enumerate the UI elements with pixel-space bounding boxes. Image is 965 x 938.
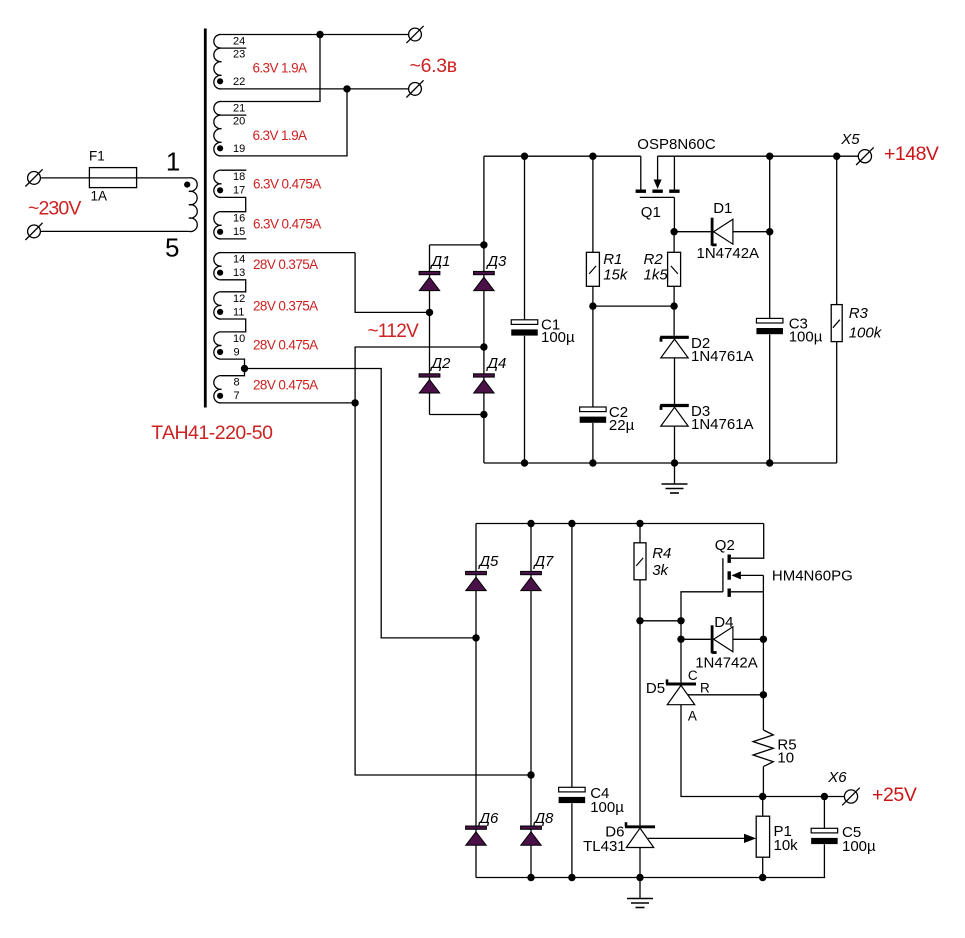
svg-text:Д7: Д7 [533, 553, 555, 570]
wire upper bridge left branch [429, 245, 431, 415]
wire pin 18 stub [222, 169, 247, 171]
svg-text:100µ: 100µ [590, 799, 624, 816]
winding 14-13 [214, 253, 222, 280]
node lower AC1 [472, 634, 479, 641]
svg-text:10: 10 [233, 333, 245, 345]
phase dot winding 13 [217, 270, 223, 276]
wire top rail right segment (+148V) [658, 155, 859, 157]
svg-text:16: 16 [233, 213, 245, 225]
node D6 anode ground [636, 874, 643, 881]
node AC1 input [426, 309, 433, 316]
zener diode D4 1N4742A (points left) [712, 625, 733, 653]
wire D5 anode to output node [681, 705, 763, 797]
shunt regulator D6 TL431 (TL431 symbol) [625, 822, 655, 847]
svg-text:D1: D1 [713, 200, 732, 217]
phase dot winding 17 [217, 187, 223, 193]
svg-text:Д1: Д1 [430, 253, 451, 270]
junction pins 9-8 tap [241, 365, 248, 372]
wire bottom rail [484, 462, 837, 464]
svg-text:R1: R1 [603, 251, 622, 268]
wire [674, 358, 676, 404]
svg-text:8: 8 [234, 377, 240, 389]
svg-text:Д2: Д2 [430, 355, 452, 372]
diode Д5 (bridge, cathode bar on top) [466, 571, 487, 590]
diode Д8 (bridge, cathode bar on top) [521, 826, 542, 845]
svg-text:28V 0.375A: 28V 0.375A [253, 257, 318, 272]
wire riser bridge- to bottom rail [483, 415, 485, 464]
svg-text:Д4: Д4 [486, 355, 507, 372]
svg-text:23: 23 [233, 48, 245, 60]
node A gate bias [636, 617, 643, 624]
node D5 ref [760, 691, 767, 698]
node C4 top [568, 520, 575, 527]
wire D1 to source rail branch [733, 231, 770, 233]
primary phase dot [184, 182, 190, 188]
winding 24-23-22 [214, 34, 222, 89]
wire D5 ref to source [688, 694, 764, 696]
wire lower rail top [476, 523, 764, 525]
wire [639, 580, 641, 621]
wire [571, 524, 573, 788]
wire lower bridge left branch [475, 524, 477, 878]
svg-text:~230V: ~230V [28, 197, 81, 219]
node Д8 bottom [527, 874, 534, 881]
wire [681, 638, 711, 640]
node bridge + output [480, 241, 487, 248]
node R4 top [636, 520, 643, 527]
wire [836, 156, 838, 304]
wire D4 to source [733, 638, 764, 640]
fuse F1 [89, 168, 136, 188]
winding 10-9 [214, 332, 222, 359]
wire pin 9 series link to 8 with tap to lower bridge [222, 359, 245, 376]
svg-text:1N4742A: 1N4742A [695, 654, 758, 671]
svg-text:100k: 100k [849, 324, 883, 341]
wire C2 branch [592, 306, 594, 407]
capacitor C1 100u [511, 320, 538, 336]
wire pin 7 to feeder junction [222, 402, 356, 404]
resistor R5 (zigzag) [753, 730, 773, 767]
resistor R4 (GOST rectangle) [634, 543, 646, 580]
winding 8-7 [214, 376, 222, 403]
zener diode D1 1N4742A (points left) [712, 218, 733, 246]
svg-text:R: R [700, 680, 710, 695]
svg-text:7: 7 [234, 390, 240, 402]
wire pin 17 series link to 16 [222, 197, 246, 211]
wire [769, 156, 771, 318]
wire drain feed from rail [731, 524, 764, 559]
node R1 top [589, 153, 596, 160]
node lower AC2 [527, 771, 534, 778]
svg-text:24: 24 [233, 35, 245, 47]
wire [836, 342, 838, 463]
node C5 branch [821, 793, 828, 800]
wire R5 to output node [762, 767, 764, 797]
node R2 bottom [670, 302, 677, 309]
wire lower bridge right branch [530, 524, 532, 878]
output terminal X5 [858, 150, 871, 163]
svg-text:22µ: 22µ [609, 417, 635, 434]
zener diode D2 1N4761A (cathode bar on top) [660, 337, 689, 358]
input terminal (mains L) [28, 172, 41, 185]
wire bridge bottom [430, 414, 484, 416]
wire [592, 286, 594, 306]
wire [639, 524, 641, 543]
svg-text:1: 1 [166, 147, 180, 177]
wire feeder to lower bridge AC2 [355, 403, 531, 775]
svg-text:18: 18 [233, 171, 245, 183]
wire [524, 156, 526, 320]
node D1 cathode / C3 branch [766, 228, 773, 235]
svg-text:5: 5 [165, 233, 179, 263]
wire pin 22 [222, 88, 348, 90]
transistor Q2 MOSFET HM4N60PG [723, 555, 764, 597]
node C2 bottom [589, 459, 596, 466]
diode Д3 (bridge, cathode bar on top) [474, 271, 495, 290]
svg-text:15k: 15k [603, 267, 629, 284]
wire [762, 797, 764, 817]
svg-text:OSP8N60C: OSP8N60C [637, 136, 716, 153]
diode Д1 (bridge, cathode bar on top) [419, 271, 440, 290]
node ground rail [671, 459, 678, 466]
svg-text:20: 20 [233, 115, 245, 127]
wire node B to D4/D5 [680, 621, 682, 683]
output terminal ~6.3V a [409, 28, 422, 41]
svg-text:13: 13 [233, 267, 245, 279]
wire pin 15 stub [222, 238, 247, 240]
svg-text:100µ: 100µ [842, 838, 876, 855]
node AC2 input [480, 343, 487, 350]
svg-text:10k: 10k [774, 837, 799, 854]
svg-text:21: 21 [233, 103, 245, 115]
wire node A down to D6 [639, 621, 641, 826]
svg-text:R4: R4 [652, 545, 671, 562]
svg-text:D5: D5 [646, 680, 665, 697]
node Д7 top [527, 520, 534, 527]
wire to output terminal 2 [347, 88, 409, 90]
svg-text:Д3: Д3 [486, 253, 508, 270]
wire [823, 844, 825, 877]
svg-text:12: 12 [233, 293, 245, 305]
wire junction 22-19 parallel link [343, 85, 350, 92]
phase dot winding 22 [217, 78, 223, 84]
wire pin 24 [222, 34, 321, 36]
wire tap to lower bridge AC1 feeder [245, 369, 477, 638]
resistor R1 (GOST rectangle) [586, 252, 599, 286]
wire [571, 803, 573, 877]
potentiometer P1 [756, 816, 769, 857]
ground [662, 463, 688, 493]
svg-text:1A: 1A [91, 189, 108, 204]
wire pin 14 to upper bridge AC1 [222, 252, 356, 254]
wire D6 ref arrow to P1 wiper [648, 837, 745, 839]
winding 16-15 [214, 212, 222, 239]
svg-text:100µ: 100µ [541, 329, 575, 346]
wire riser bridge+ to top rail [483, 156, 485, 245]
svg-text:22: 22 [233, 76, 245, 88]
output terminal X6 [844, 790, 857, 803]
node C1 bottom [521, 459, 528, 466]
svg-text:R2: R2 [644, 251, 664, 268]
svg-text:6.3V 1.9A: 6.3V 1.9A [253, 61, 307, 76]
node B gate [677, 617, 684, 624]
node D4 anode [677, 636, 684, 643]
wire top rail left segment (raw DC) [484, 155, 641, 157]
node C3 top rail [766, 153, 773, 160]
node C3 bottom [766, 459, 773, 466]
svg-text:17: 17 [233, 185, 245, 197]
wire [40, 230, 189, 232]
node gate / D1 anode [670, 228, 677, 235]
tap stub pin 23 [222, 47, 247, 49]
wire [674, 426, 676, 463]
zener diode D3 1N4761A (cathode bar on top) [660, 406, 689, 427]
phase dot winding 15 [217, 229, 223, 235]
svg-text:10: 10 [777, 750, 794, 767]
wire junction 24-21 parallel link [316, 31, 323, 38]
wire [40, 177, 89, 179]
capacitor C4 100u [559, 787, 586, 803]
capacitor C3 100u [756, 318, 783, 334]
svg-text:1N4761A: 1N4761A [691, 416, 754, 433]
capacitor C2 22u [580, 407, 607, 423]
wire to output terminal 1 [320, 34, 409, 36]
wire node A to node B [640, 620, 681, 622]
ground [627, 878, 653, 908]
diode Д4 (bridge, cathode bar on top) [474, 374, 495, 393]
svg-text:1N4742A: 1N4742A [697, 245, 760, 262]
wire [673, 286, 675, 306]
wire [524, 336, 526, 463]
capacitor C5 100u [811, 828, 838, 844]
svg-text:9: 9 [234, 346, 240, 358]
wire source vertical [762, 575, 764, 730]
node bridge - output [480, 411, 487, 418]
phase dot winding 9 [217, 349, 223, 355]
transistor Q1 MOSFET OSP8N60C [636, 156, 680, 232]
wire [592, 423, 594, 463]
svg-text:6.3V 0.475A: 6.3V 0.475A [253, 217, 321, 232]
svg-text:F1: F1 [89, 148, 105, 163]
svg-text:X6: X6 [827, 769, 847, 786]
wire [673, 306, 675, 336]
resistor R3 (GOST rectangle) [831, 305, 842, 342]
svg-text:14: 14 [233, 254, 245, 266]
phase dot winding 19 [217, 145, 223, 151]
node C4 bottom [568, 874, 575, 881]
wire [823, 797, 825, 829]
node R1-R2-C2 [589, 302, 596, 309]
phase dot winding 7 [217, 393, 223, 399]
svg-text:HM4N60PG: HM4N60PG [772, 567, 853, 584]
wire output row [763, 796, 845, 798]
svg-text:D4: D4 [714, 614, 733, 631]
svg-text:+148V: +148V [884, 143, 939, 165]
svg-text:11: 11 [233, 306, 244, 318]
svg-text:28V 0.475A: 28V 0.475A [253, 338, 318, 353]
node D4 cathode source [760, 636, 767, 643]
wire gate down to node B [681, 592, 723, 621]
svg-text:1N4761A: 1N4761A [691, 348, 754, 365]
wire D6 anode [639, 848, 641, 878]
svg-text:X5: X5 [840, 131, 860, 148]
wire gate bias node [593, 305, 674, 307]
svg-text:C: C [688, 668, 698, 683]
svg-text:28V 0.375A: 28V 0.375A [253, 299, 318, 314]
svg-text:28V 0.475A: 28V 0.475A [253, 377, 318, 392]
node P1 bottom [759, 874, 766, 881]
svg-text:Д5: Д5 [478, 553, 500, 570]
svg-text:Д8: Д8 [533, 810, 555, 827]
diode Д7 (bridge, cathode bar on top) [521, 571, 542, 590]
svg-text:ТАН41-220-50: ТАН41-220-50 [151, 422, 273, 444]
transformer primary winding pins 1-5 [189, 178, 197, 232]
wire gate to D1 [674, 231, 711, 233]
svg-text:1k5: 1k5 [644, 267, 669, 284]
tap stub pin 20 [222, 114, 247, 116]
svg-text:15: 15 [233, 226, 245, 238]
wire [769, 334, 771, 463]
svg-text:19: 19 [233, 143, 245, 155]
svg-text:R3: R3 [849, 305, 869, 322]
svg-text:3k: 3k [652, 562, 669, 579]
output terminal ~6.3V b [409, 83, 422, 96]
node R3 top [833, 153, 840, 160]
svg-text:6.3V 0.475A: 6.3V 0.475A [253, 176, 321, 191]
wire pin 11 series link to 10 [222, 319, 246, 332]
node output / R5 [759, 793, 766, 800]
junction pin 7 feeder [351, 399, 358, 406]
shunt regulator D5 (TL431 symbol) [666, 679, 696, 704]
svg-text:+25V: +25V [872, 784, 917, 806]
winding 21-20-19 [214, 101, 222, 156]
svg-text:100µ: 100µ [789, 329, 823, 346]
svg-text:Q1: Q1 [641, 204, 661, 221]
wire [762, 857, 764, 877]
wire [592, 156, 594, 252]
wire [673, 232, 675, 253]
node C1 top [521, 153, 528, 160]
winding 18-17 [214, 170, 222, 197]
diode Д2 (bridge, cathode bar on top) [419, 374, 440, 393]
wire lower rail bottom [476, 877, 825, 879]
svg-text:Д6: Д6 [478, 810, 500, 827]
diode Д6 (bridge, cathode bar on top) [466, 826, 487, 845]
wire [137, 177, 189, 179]
wire upper bridge right branch [483, 245, 485, 415]
svg-text:TL431: TL431 [583, 838, 626, 855]
transformer core [204, 29, 207, 408]
svg-text:~112V: ~112V [368, 321, 420, 342]
wire feeder to upper bridge AC2 [355, 347, 484, 403]
svg-text:Q2: Q2 [715, 537, 735, 554]
wire pin 13 series link to 12 [222, 280, 246, 292]
resistor R2 (GOST rectangle) [668, 252, 681, 286]
svg-text:6.3V 1.9A: 6.3V 1.9A [253, 128, 307, 143]
wire bridge top [430, 244, 484, 246]
input terminal (mains N) [28, 225, 41, 238]
phase dot winding 11 [217, 309, 223, 315]
winding 12-11 [214, 292, 222, 319]
svg-text:A: A [688, 709, 697, 724]
svg-text:~6.3в: ~6.3в [410, 55, 457, 77]
